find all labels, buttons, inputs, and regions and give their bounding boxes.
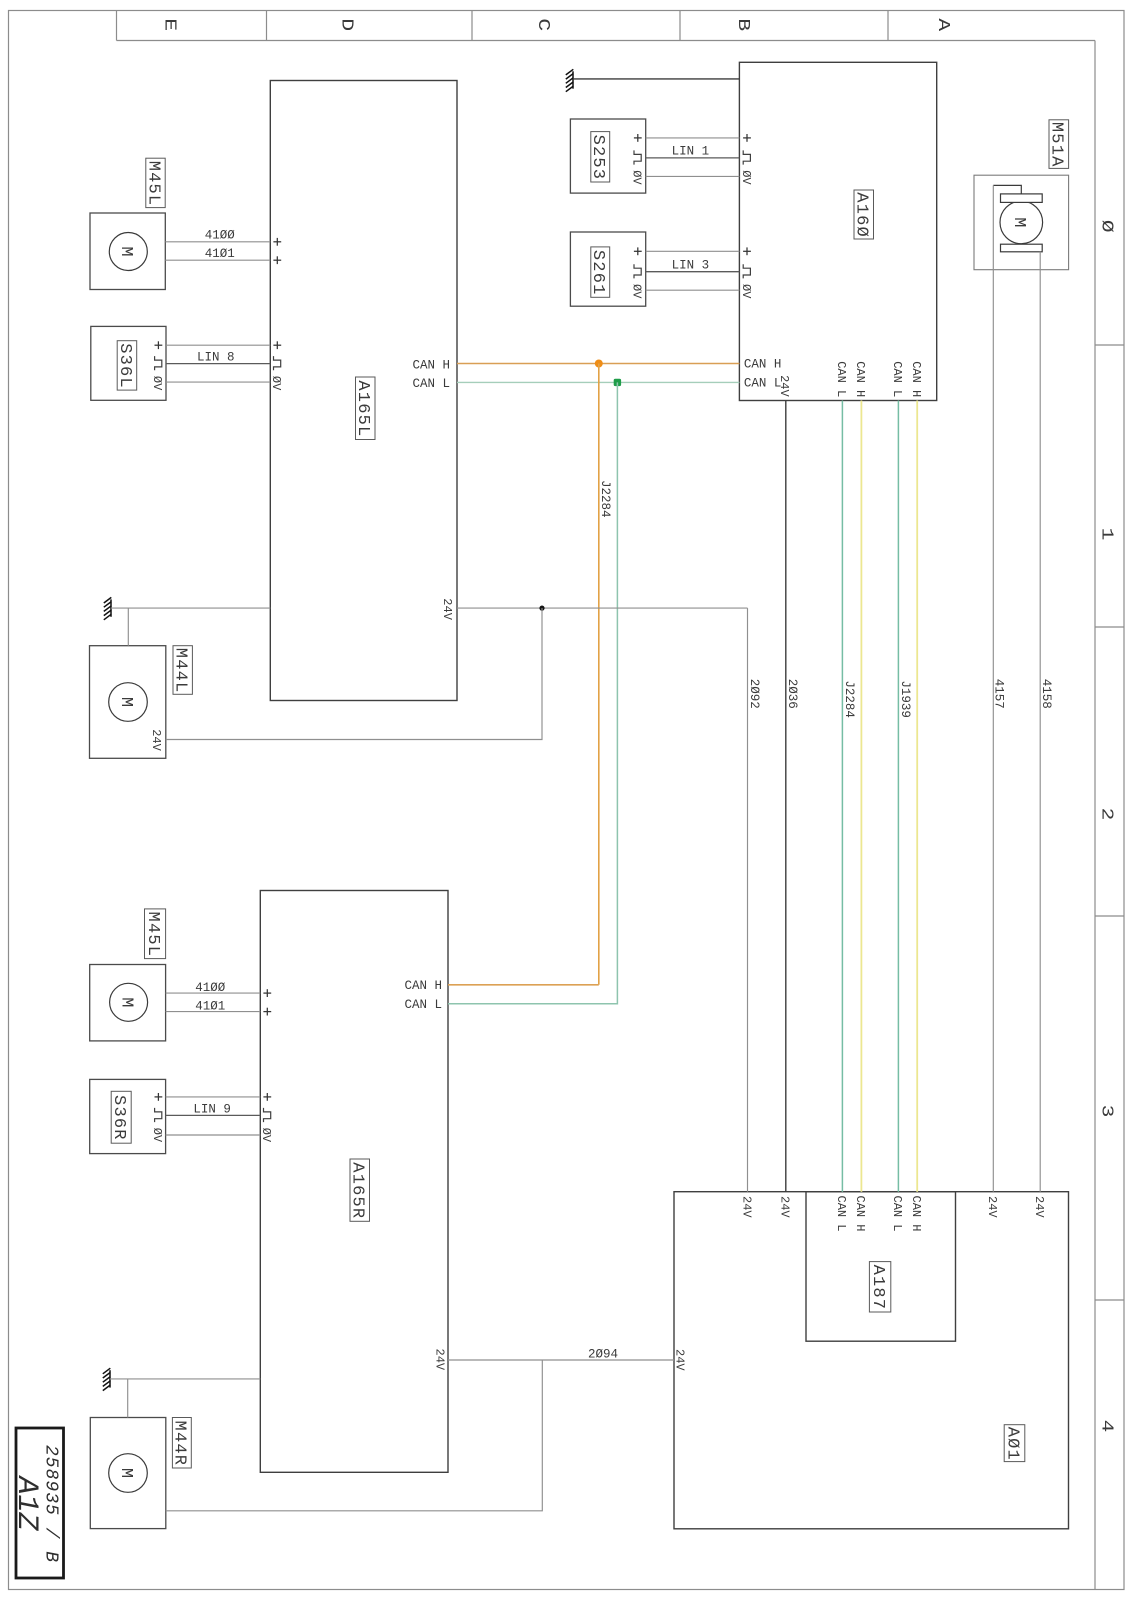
- wire CAN H (J2284): [860, 401, 862, 1192]
- wire + supply: [166, 1096, 261, 1098]
- pin +: [273, 238, 281, 246]
- switch body: [90, 1079, 166, 1153]
- wire 0V: [166, 1134, 261, 1136]
- svg-text:M51A: M51A: [1047, 122, 1066, 168]
- pin + (S36L): [155, 341, 163, 349]
- A165R box: [260, 891, 448, 1473]
- svg-text:24V: 24V: [739, 1196, 753, 1218]
- svg-text:1: 1: [1097, 528, 1116, 541]
- label S253: [591, 132, 610, 182]
- svg-text:CAN H: CAN H: [744, 358, 782, 372]
- label M45L: [146, 158, 165, 207]
- svg-text:CAN H: CAN H: [909, 1196, 923, 1232]
- wire 24V to M44R: [166, 1360, 543, 1511]
- svg-text:CAN H: CAN H: [405, 979, 443, 993]
- pin + (A160): [743, 134, 751, 142]
- svg-text:LIN 3: LIN 3: [672, 259, 710, 273]
- svg-text:24V: 24V: [1032, 1196, 1046, 1218]
- motor M51A: [974, 120, 1069, 270]
- svg-text:24V: 24V: [777, 375, 791, 397]
- wire + supply: [646, 250, 740, 252]
- wire CAN L (A165L to A160, teal): [413, 376, 782, 391]
- svg-text:41Ø1: 41Ø1: [205, 247, 235, 261]
- wire CAN L (J1939): [897, 401, 899, 1192]
- ECU A160: [739, 62, 936, 400]
- svg-text:AØ1: AØ1: [1002, 1427, 1021, 1461]
- wire 4100: [166, 992, 261, 994]
- wire LIN 1 (S253 to A160, 3 conductors): [630, 134, 753, 185]
- wire J1939 bus pair (A160 to A187): CAN L teal / CAN H yellow: [890, 361, 923, 1231]
- wire LIN 9: [166, 1114, 261, 1116]
- svg-text:A165R: A165R: [348, 1162, 367, 1219]
- svg-text:CAN L: CAN L: [890, 1196, 904, 1232]
- brush (top): [1001, 194, 1043, 203]
- svg-text:S36L: S36L: [115, 343, 134, 389]
- svg-text:CAN H: CAN H: [853, 1196, 867, 1232]
- svg-text:LIN 9: LIN 9: [193, 1102, 231, 1116]
- wire 4157 (M51A to A01): [985, 185, 1005, 1218]
- svg-text:Ø: Ø: [1097, 220, 1116, 233]
- wire 2092 (24V to A01): [739, 608, 761, 1218]
- pin pulse (S261): [634, 264, 641, 278]
- wire LIN 8: [166, 363, 270, 365]
- svg-text:M: M: [116, 997, 135, 1007]
- wire LIN 3 (S261 to A160, 3 conductors): [630, 247, 753, 299]
- title block: [9, 1428, 63, 1578]
- svg-text:M: M: [116, 697, 135, 707]
- label S36R: [111, 1091, 131, 1143]
- svg-text:ØV: ØV: [630, 170, 644, 185]
- wire 4100: [165, 241, 270, 243]
- label A01: [1004, 1425, 1025, 1462]
- wire 4101: [166, 1011, 261, 1013]
- wire CAN L: [448, 382, 617, 1003]
- ECU A165L: [270, 81, 457, 701]
- svg-text:CAN L: CAN L: [890, 361, 904, 397]
- wire CAN L (J2284): [841, 401, 843, 1192]
- svg-text:4157: 4157: [991, 679, 1005, 709]
- node CAN L junction (green dot): [614, 379, 621, 386]
- wire 24V to M44R: [166, 1360, 543, 1511]
- wire LIN 8 (S36L to A165L, 3 conductors): [150, 341, 283, 391]
- switch body: [91, 326, 166, 400]
- node 24V junction: [539, 606, 544, 611]
- svg-text:M44L: M44L: [171, 648, 190, 694]
- svg-text:ØV: ØV: [630, 284, 644, 299]
- svg-text:M44R: M44R: [170, 1421, 189, 1467]
- svg-text:ØV: ØV: [739, 170, 753, 185]
- svg-text:24V: 24V: [985, 1196, 999, 1218]
- pin pulse (S36L): [155, 356, 162, 370]
- module A187: [806, 1192, 956, 1342]
- svg-text:CAN L: CAN L: [834, 361, 848, 397]
- svg-text:LIN 1: LIN 1: [672, 145, 710, 159]
- wire 4157: [992, 185, 994, 1191]
- svg-text:A165L: A165L: [353, 380, 372, 437]
- pin pulse (S253): [634, 150, 641, 164]
- wire 4100 (M45L top to A165L): [165, 229, 281, 246]
- pin +: [263, 1008, 271, 1016]
- svg-text:2Ø94: 2Ø94: [588, 1347, 618, 1361]
- wire 4101 (M45L top to A165L): [165, 247, 281, 264]
- label M51A: [1049, 120, 1069, 169]
- svg-text:ØV: ØV: [259, 1128, 273, 1143]
- wire 4101: [165, 259, 270, 261]
- pin + (S261): [634, 247, 642, 255]
- wire 0V: [166, 381, 270, 383]
- pin pulse (A160): [743, 150, 750, 164]
- svg-text:24V: 24V: [432, 1349, 446, 1371]
- pin +: [263, 989, 271, 997]
- pin + (A160): [743, 247, 751, 255]
- ECU A01: [674, 1192, 1069, 1529]
- terminal lead: [993, 185, 1021, 194]
- svg-text:J1939: J1939: [898, 680, 912, 718]
- svg-text:A16Ø: A16Ø: [852, 192, 871, 238]
- svg-text:41Ø1: 41Ø1: [195, 1000, 225, 1014]
- svg-text:CAN L: CAN L: [834, 1196, 848, 1232]
- svg-text:ØV: ØV: [739, 284, 753, 299]
- label S36L: [117, 341, 137, 390]
- wire CAN H (J1939): [916, 401, 918, 1192]
- motor symbol M: [109, 1454, 148, 1493]
- wire 2094: [448, 1359, 674, 1361]
- wire 2094 (A165R 24V to A01): [432, 1347, 686, 1371]
- motor symbol M: [1000, 201, 1043, 244]
- wire 2036 (A160 24V to A01): [777, 375, 799, 1218]
- svg-text:CAN H: CAN H: [909, 361, 923, 397]
- ground symbol: [566, 69, 574, 91]
- svg-text:3: 3: [1097, 1105, 1116, 1118]
- svg-text:24V: 24V: [778, 1196, 792, 1218]
- wire + supply: [166, 344, 270, 346]
- svg-text:LIN 8: LIN 8: [197, 350, 235, 364]
- A165L box: [270, 81, 457, 701]
- svg-text:CAN L: CAN L: [744, 376, 782, 390]
- switch body: [570, 232, 645, 306]
- wire ground to A160: [573, 78, 739, 80]
- svg-text:S36R: S36R: [109, 1095, 128, 1141]
- wire 4158 (M51A to A01): [1032, 252, 1053, 1219]
- motor M45L (top): [90, 158, 165, 289]
- motor body: [90, 213, 165, 290]
- wire CAN H: [457, 363, 739, 365]
- wire LIN 1: [646, 157, 740, 159]
- svg-text:M: M: [1009, 217, 1028, 227]
- switch S36L: [91, 326, 166, 400]
- motor M45L (lower): [90, 909, 166, 1041]
- wire LIN 3: [646, 271, 740, 273]
- sensor S261: [570, 232, 645, 306]
- svg-text:A: A: [933, 18, 952, 31]
- wire 4101 (M45L lower to A165R): [166, 1000, 272, 1016]
- svg-text:M: M: [116, 246, 135, 256]
- pin + (A165R): [263, 1093, 271, 1101]
- pin + (S36R): [155, 1093, 163, 1101]
- A160 box: [739, 62, 936, 400]
- label A165L: [356, 377, 376, 440]
- ground symbol: [104, 597, 112, 619]
- motor symbol M: [110, 983, 148, 1021]
- wire 0V: [646, 289, 740, 291]
- wire 24V from A165L (to node and 2092): [440, 598, 748, 620]
- svg-text:C: C: [533, 18, 552, 31]
- wire J2284 bus pair (A160 to A187): CAN L teal / CAN H yellow: [834, 361, 867, 1231]
- label M45L: [145, 909, 166, 959]
- svg-text:M45L: M45L: [143, 912, 162, 958]
- motor symbol M: [109, 683, 148, 722]
- wire + supply: [646, 137, 740, 139]
- svg-text:D: D: [337, 18, 356, 31]
- pin pulse (S36R): [155, 1108, 162, 1122]
- motor body: [90, 646, 166, 759]
- label M44L: [173, 646, 192, 695]
- wire 2092: [747, 608, 749, 1192]
- pin +: [273, 256, 281, 264]
- wire 2036: [785, 401, 787, 1192]
- svg-text:ØV: ØV: [150, 1128, 164, 1143]
- svg-text:M: M: [116, 1468, 135, 1478]
- switch S36R: [90, 1079, 166, 1153]
- svg-text:4: 4: [1097, 1420, 1116, 1433]
- node CAN H junction (orange dot): [595, 360, 603, 368]
- svg-text:M45L: M45L: [143, 161, 162, 207]
- svg-text:S253: S253: [588, 135, 607, 181]
- motor M44L: [90, 646, 193, 759]
- svg-text:J2284: J2284: [842, 680, 856, 718]
- switch body: [570, 119, 645, 193]
- svg-text:41ØØ: 41ØØ: [205, 229, 236, 243]
- svg-text:41ØØ: 41ØØ: [195, 981, 226, 995]
- A01 box: [674, 1192, 1069, 1529]
- wire J2284 CAN H: [598, 364, 600, 985]
- motor body: [974, 175, 1069, 270]
- ECU A165R: [260, 891, 448, 1473]
- A187 box: [806, 1192, 956, 1342]
- svg-text:A187: A187: [868, 1265, 887, 1311]
- wire ground branch to M44R: [127, 1379, 129, 1418]
- svg-text:ØV: ØV: [150, 376, 164, 391]
- wire 24V: [457, 607, 748, 609]
- svg-text:2: 2: [1097, 808, 1116, 821]
- svg-text:S261: S261: [588, 250, 607, 296]
- svg-text:J2284: J2284: [598, 480, 612, 518]
- label S261: [591, 247, 610, 297]
- wire J2284 CAN H drop (orange, to A165R): [405, 364, 612, 993]
- wire 24V to M44L: [166, 608, 542, 739]
- ground (A160): [566, 69, 740, 91]
- wire CAN H (A165L to A160, orange): [413, 358, 782, 373]
- svg-text:ØV: ØV: [269, 376, 283, 391]
- svg-text:CAN L: CAN L: [405, 998, 443, 1012]
- wire 24V to M44L: [166, 608, 542, 739]
- pin pulse (A165R): [264, 1108, 271, 1122]
- svg-text:B: B: [733, 18, 752, 31]
- ground (M44R / A165R): [103, 1368, 260, 1417]
- wire 0V: [646, 175, 740, 177]
- motor M44R: [90, 1418, 191, 1529]
- wire CAN L: [457, 381, 739, 383]
- wire ground to A165R: [110, 1378, 260, 1380]
- label A187: [869, 1262, 890, 1312]
- pin + (A165L): [273, 341, 281, 349]
- wire ground branch to M44L: [127, 608, 129, 646]
- svg-text:24V: 24V: [672, 1349, 686, 1371]
- wire 4100 (M45L lower to A165R): [166, 981, 272, 997]
- motor body: [90, 965, 166, 1041]
- ground symbol: [103, 1368, 111, 1390]
- label M44R: [172, 1418, 191, 1469]
- svg-text:CAN L: CAN L: [413, 377, 451, 391]
- ground (M44L / A165L): [104, 597, 270, 645]
- motor symbol M: [109, 233, 147, 271]
- pin pulse (A160): [743, 264, 750, 278]
- svg-text:CAN H: CAN H: [413, 358, 451, 372]
- svg-text:2Ø36: 2Ø36: [785, 679, 799, 709]
- label A165R: [350, 1159, 370, 1221]
- svg-text:E: E: [160, 18, 179, 31]
- svg-text:A1Z: A1Z: [9, 1475, 43, 1532]
- wire 4158: [1039, 252, 1041, 1192]
- svg-text:4158: 4158: [1039, 679, 1053, 709]
- pin pulse (A165L): [274, 356, 281, 370]
- sensor S253: [570, 119, 645, 193]
- svg-text:24V: 24V: [149, 729, 163, 751]
- brush (bottom): [1001, 244, 1043, 252]
- svg-text:2Ø92: 2Ø92: [747, 679, 761, 709]
- wire LIN 9 (S36R to A165R, 3 conductors): [150, 1093, 273, 1143]
- wire CAN L drop (teal, to A165R): [405, 382, 618, 1012]
- svg-text:CAN H: CAN H: [853, 361, 867, 397]
- motor body: [90, 1418, 166, 1529]
- svg-text:24V: 24V: [440, 598, 454, 620]
- pin + (S253): [634, 134, 642, 142]
- wire ground to A165L: [111, 607, 270, 609]
- label A160: [854, 190, 874, 239]
